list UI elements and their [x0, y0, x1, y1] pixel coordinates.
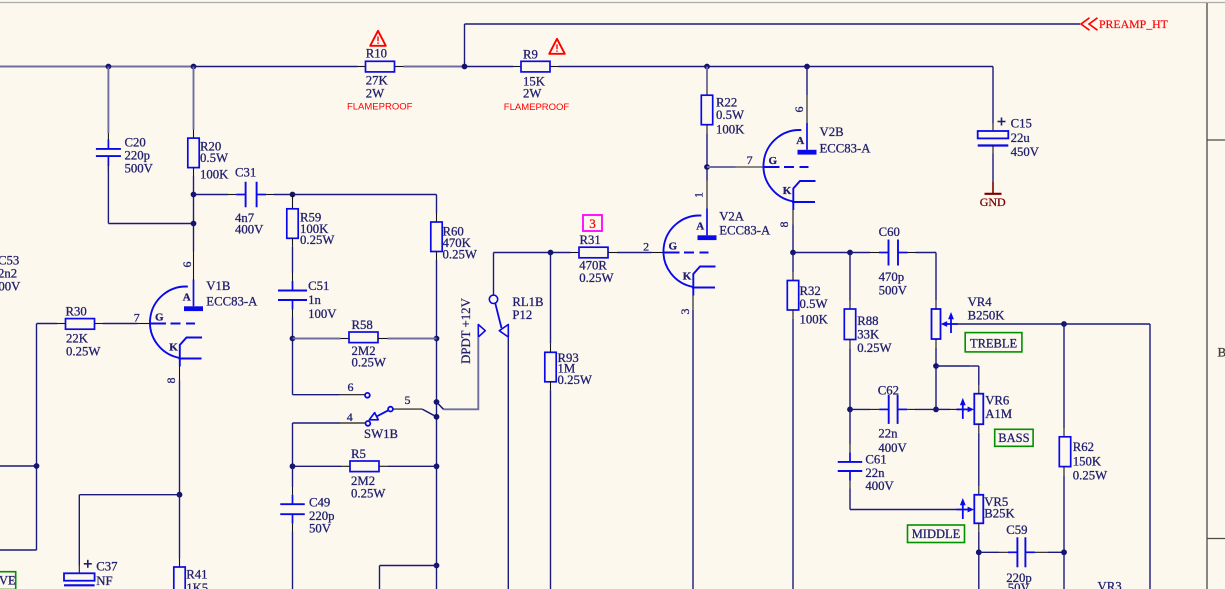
svg-text:2W: 2W [523, 87, 542, 101]
svg-text:A: A [696, 221, 704, 233]
svg-text:B: B [1218, 345, 1225, 360]
svg-text:P12: P12 [512, 308, 532, 322]
svg-text:R88: R88 [857, 314, 878, 328]
svg-text:R9: R9 [523, 48, 538, 62]
svg-text:1: 1 [691, 192, 705, 198]
svg-text:3: 3 [678, 309, 692, 315]
svg-text:BASS: BASS [998, 431, 1029, 445]
svg-text:NF: NF [96, 574, 112, 588]
svg-text:RL1B: RL1B [512, 295, 543, 309]
svg-text:K: K [169, 342, 178, 354]
svg-text:C59: C59 [1006, 523, 1027, 537]
svg-text:500V: 500V [879, 284, 908, 298]
svg-text:V1B: V1B [206, 279, 230, 293]
svg-text:22K: 22K [66, 332, 89, 346]
svg-text:GND: GND [980, 195, 1006, 209]
svg-text:5: 5 [405, 393, 411, 407]
svg-text:C15: C15 [1011, 116, 1032, 130]
svg-text:500V: 500V [125, 162, 154, 176]
svg-text:TREBLE: TREBLE [970, 336, 1018, 350]
svg-text:A1M: A1M [985, 407, 1012, 421]
svg-text:6: 6 [348, 380, 354, 394]
svg-text:R31: R31 [580, 233, 601, 247]
svg-text:0.25W: 0.25W [352, 355, 387, 369]
svg-text:4: 4 [347, 410, 353, 424]
svg-text:C62: C62 [878, 384, 899, 398]
svg-text:50V: 50V [309, 521, 332, 535]
svg-text:FLAMEPROOF: FLAMEPROOF [504, 102, 570, 113]
svg-text:R10: R10 [366, 47, 387, 61]
svg-text:1K5: 1K5 [186, 581, 208, 589]
svg-text:100V: 100V [0, 280, 21, 294]
svg-text:0.25W: 0.25W [66, 345, 101, 359]
svg-text:R30: R30 [66, 304, 87, 318]
svg-text:0.5W: 0.5W [800, 297, 829, 311]
svg-text:G: G [155, 312, 164, 324]
svg-text:6: 6 [180, 262, 194, 268]
svg-text:7: 7 [134, 311, 140, 325]
svg-text:100K: 100K [716, 123, 745, 137]
svg-text:PREAMP_HT: PREAMP_HT [1099, 17, 1169, 31]
svg-text:0.25W: 0.25W [351, 486, 386, 500]
svg-text:R62: R62 [1073, 440, 1094, 454]
svg-text:C51: C51 [308, 279, 329, 293]
svg-text:2W: 2W [366, 86, 385, 100]
svg-text:B250K: B250K [968, 308, 1006, 322]
svg-text:0.25W: 0.25W [579, 271, 614, 285]
svg-text:3: 3 [589, 216, 596, 231]
svg-text:33K: 33K [857, 328, 880, 342]
svg-text:50V: 50V [1008, 581, 1031, 589]
svg-text:R41: R41 [186, 568, 207, 582]
svg-text:K: K [683, 271, 692, 283]
svg-text:G: G [669, 241, 678, 253]
svg-text:V2B: V2B [820, 125, 844, 139]
svg-text:220p: 220p [125, 148, 151, 162]
svg-text:0.5W: 0.5W [716, 108, 745, 122]
svg-text:R32: R32 [800, 284, 821, 298]
svg-text:22u: 22u [1011, 131, 1031, 145]
svg-text:G: G [769, 155, 778, 167]
svg-text:SW1B: SW1B [364, 427, 398, 441]
svg-text:8: 8 [164, 378, 178, 384]
svg-text:VR4: VR4 [968, 295, 993, 309]
svg-text:A: A [796, 135, 804, 147]
svg-text:R5: R5 [351, 447, 366, 461]
svg-text:A: A [183, 292, 191, 304]
svg-text:100K: 100K [800, 312, 829, 326]
svg-text:ECC83-A: ECC83-A [820, 142, 872, 156]
svg-text:0.25W: 0.25W [1073, 469, 1108, 483]
svg-text:0.25W: 0.25W [857, 341, 892, 355]
svg-text:100K: 100K [200, 168, 229, 182]
svg-text:2n2: 2n2 [0, 267, 17, 281]
svg-text:K: K [783, 185, 792, 197]
svg-text:DPDT +12V: DPDT +12V [459, 297, 473, 363]
svg-text:C49: C49 [309, 496, 330, 510]
svg-text:ECC83-A: ECC83-A [206, 294, 258, 308]
svg-text:R58: R58 [352, 318, 373, 332]
svg-text:0.25W: 0.25W [558, 373, 593, 387]
svg-text:0.25W: 0.25W [443, 248, 478, 262]
svg-text:0.25W: 0.25W [300, 233, 335, 247]
svg-text:C60: C60 [879, 225, 900, 239]
svg-text:400V: 400V [235, 223, 264, 237]
svg-text:400V: 400V [865, 479, 894, 493]
svg-text:150K: 150K [1073, 455, 1102, 469]
svg-text:C53: C53 [0, 254, 19, 268]
svg-text:1n: 1n [308, 293, 321, 307]
svg-text:2: 2 [643, 240, 649, 254]
svg-text:VR3: VR3 [1098, 580, 1122, 589]
svg-text:22n: 22n [878, 427, 898, 441]
svg-text:7: 7 [747, 153, 753, 167]
svg-text:C31: C31 [235, 166, 256, 180]
svg-text:450V: 450V [1011, 145, 1040, 159]
svg-text:6: 6 [792, 107, 806, 113]
svg-text:FLAMEPROOF: FLAMEPROOF [347, 102, 413, 113]
svg-text:B25K: B25K [984, 506, 1015, 520]
svg-text:MIDDLE: MIDDLE [912, 527, 961, 541]
svg-text:VE: VE [0, 574, 16, 588]
svg-text:470p: 470p [879, 270, 905, 284]
svg-text:ECC83-A: ECC83-A [719, 224, 771, 238]
svg-text:V2A: V2A [719, 210, 745, 224]
svg-text:VR6: VR6 [985, 394, 1009, 408]
svg-text:8: 8 [777, 222, 791, 228]
svg-text:100V: 100V [308, 307, 337, 321]
svg-text:C37: C37 [96, 560, 117, 574]
svg-text:0.5W: 0.5W [200, 151, 229, 165]
svg-text:C61: C61 [865, 453, 886, 467]
